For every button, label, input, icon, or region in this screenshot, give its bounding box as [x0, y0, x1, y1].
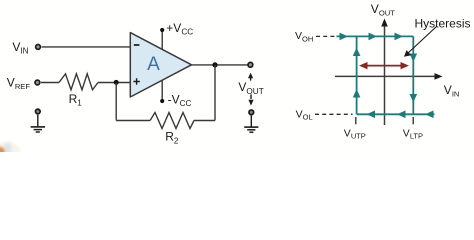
ground right [244, 110, 258, 132]
resistor R1 [59, 74, 98, 90]
wire VREF to R1 [41, 82, 59, 84]
hysteresis loop top line [337, 33, 414, 41]
terminal VOUT [248, 62, 253, 67]
hysteresis loop bottom line [357, 111, 435, 119]
wire R1 to non-inverting input [98, 82, 130, 84]
terminal VIN [36, 45, 41, 50]
node junction R1/R2 [114, 80, 119, 85]
VOUT indicator up arrow [250, 77, 252, 81]
+VCC supply [160, 21, 193, 50]
wire feedback left leg [115, 82, 117, 120]
dashed line VOH [316, 35, 335, 37]
hysteresis loop right vertical [410, 36, 418, 114]
annotation arrow Hysteresis [408, 27, 437, 54]
ground left [31, 109, 45, 132]
wire feedback bottom right [194, 120, 215, 122]
tick VUTP [355, 117, 357, 124]
dashed line VOL [315, 113, 353, 115]
-VCC supply [160, 80, 191, 108]
svg-text:A: A [147, 54, 160, 75]
wire feedback bottom left [116, 120, 150, 122]
op-amp A [130, 33, 191, 97]
wire feedback right leg [214, 65, 216, 121]
decorative corner smudge [0, 0, 1, 1]
svg-text:Hysteresis: Hysteresis [415, 16, 471, 30]
y-axis VOUT [384, 24, 386, 125]
tick VLTP [412, 117, 414, 124]
x-axis VIN [335, 75, 436, 77]
hysteresis red double arrow [359, 62, 409, 69]
VOUT indicator down arrow [250, 94, 252, 99]
wire op-amp output to VOUT terminal [192, 64, 248, 66]
wire VIN to op-amp inverting input [42, 46, 130, 48]
resistor R2 [150, 113, 194, 129]
terminal VREF [35, 80, 40, 85]
node output junction [212, 62, 217, 67]
hysteresis loop left vertical [353, 36, 361, 114]
